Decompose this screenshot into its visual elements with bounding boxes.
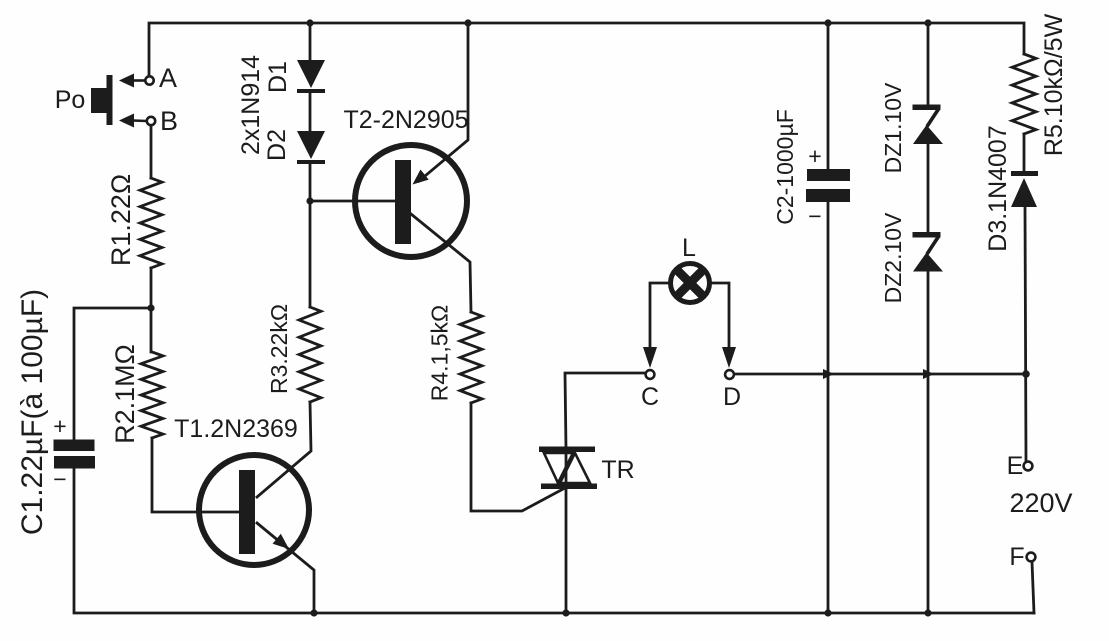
- svg-text:F: F: [1009, 543, 1024, 571]
- svg-text:R3.22kΩ: R3.22kΩ: [266, 304, 292, 394]
- svg-text:E: E: [1007, 452, 1024, 480]
- svg-text:220V: 220V: [1009, 488, 1072, 518]
- svg-text:D1: D1: [264, 61, 292, 93]
- svg-text:−: −: [53, 466, 66, 492]
- svg-text:C1.22µF(à 100µF): C1.22µF(à 100µF): [16, 289, 49, 535]
- svg-text:R1.22Ω: R1.22Ω: [106, 174, 136, 266]
- svg-text:Po: Po: [55, 86, 86, 114]
- svg-text:A: A: [159, 63, 177, 93]
- svg-text:DZ2.10V: DZ2.10V: [880, 212, 906, 303]
- svg-text:TR: TR: [601, 456, 634, 484]
- svg-text:R2.1MΩ: R2.1MΩ: [110, 344, 140, 444]
- svg-text:DZ1.10V: DZ1.10V: [880, 82, 906, 173]
- svg-text:D2: D2: [263, 129, 291, 161]
- svg-text:T1.2N2369: T1.2N2369: [174, 415, 298, 443]
- svg-text:−: −: [808, 203, 821, 229]
- svg-text:+: +: [808, 143, 821, 169]
- svg-text:+: +: [53, 413, 66, 439]
- svg-text:L: L: [682, 234, 696, 262]
- svg-text:R4.1,5kΩ: R4.1,5kΩ: [427, 305, 453, 401]
- svg-text:R5.10kΩ/5W: R5.10kΩ/5W: [1040, 13, 1068, 156]
- svg-text:T2-2N2905: T2-2N2905: [343, 106, 468, 134]
- svg-text:C: C: [641, 383, 659, 411]
- svg-text:C2-1000µF: C2-1000µF: [772, 109, 798, 225]
- svg-text:D: D: [723, 383, 741, 411]
- svg-text:2x1N914: 2x1N914: [237, 55, 265, 155]
- svg-text:D3.1N4007: D3.1N4007: [984, 125, 1012, 251]
- svg-text:B: B: [160, 106, 178, 136]
